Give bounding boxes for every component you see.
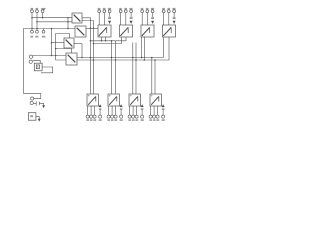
feed-through terminal X2.1 — [31, 30, 34, 33]
feed-through labels — [30, 36, 45, 38]
input terminal X1.1 — [31, 10, 34, 13]
junction — [31, 17, 33, 19]
input terminal row top-left: labels — [31, 8, 45, 10]
wire ch4 drop a — [151, 58, 153, 95]
channel group B4 — [149, 94, 165, 121]
junction — [55, 55, 57, 57]
signal converter U2 — [120, 25, 133, 37]
channel group G1 — [98, 8, 111, 37]
junction — [51, 55, 53, 57]
bus 2 y=60 — [77, 37, 169, 60]
dc/dc converter A — [72, 13, 82, 23]
signal converter U7 — [129, 94, 141, 106]
wire coil loop — [41, 67, 53, 73]
wire contact to converter D — [37, 55, 66, 57]
junction — [31, 28, 33, 30]
wires G3 — [141, 13, 143, 25]
wire ch2 drop a — [111, 41, 113, 94]
wires G4 — [163, 13, 165, 25]
wire ch3 drop a — [132, 43, 134, 95]
terminal labels G3 — [141, 8, 154, 10]
signal converter U8 — [150, 94, 162, 106]
wire ch2 drop b — [115, 41, 117, 94]
wire inner path — [56, 34, 70, 61]
interior mark B3 — [130, 95, 131, 96]
junction — [93, 43, 95, 45]
junction — [81, 57, 83, 59]
junction — [51, 28, 53, 30]
wire ch3 drop b — [135, 43, 137, 95]
wire X1.1 down to feed-through — [31, 13, 33, 30]
disconnect tick on X1.3 — [44, 8, 46, 10]
relay contact K1.1 — [29, 55, 32, 58]
wire feed to G2 second pin — [93, 37, 121, 44]
junction — [67, 21, 69, 23]
terminals G2 — [119, 10, 122, 13]
pin G1 b — [105, 37, 107, 41]
channel group B3 — [128, 94, 144, 121]
junction — [67, 17, 69, 19]
pin G3 b — [143, 37, 145, 60]
junction — [90, 40, 92, 42]
junction — [67, 28, 69, 30]
plug arrow B4 — [162, 104, 165, 107]
pin G3 a — [141, 37, 143, 58]
terminals G1 — [98, 8, 111, 10]
wire converter A out 2 — [82, 21, 93, 95]
plug symbol G1 — [108, 17, 111, 19]
signal converter U1 — [98, 25, 111, 37]
interior mark B4 — [151, 95, 152, 96]
terminals G3 — [141, 10, 144, 13]
channel group G4 — [162, 8, 175, 37]
terminal labels B4 — [149, 119, 164, 121]
wire stub X2.3 — [43, 29, 45, 31]
plug bar 1 — [33, 101, 36, 105]
signal converter U4 — [163, 25, 176, 37]
wire inner bottom to box D top — [56, 49, 72, 54]
junction — [55, 48, 57, 50]
wire riser x=82 — [81, 44, 83, 58]
junction — [132, 57, 134, 59]
bus L- y=21.8 — [37, 21, 72, 23]
junction — [105, 40, 107, 42]
wire ch4 drop b — [154, 60, 156, 94]
plug arrow B2 — [120, 104, 123, 107]
channel group B1 — [86, 94, 102, 121]
terminal wires B3 — [129, 106, 131, 115]
terminal labels B2 — [107, 119, 122, 121]
wire left drop to test sockets — [24, 94, 41, 99]
junction — [93, 28, 95, 30]
junction — [111, 57, 113, 59]
pin G1 a — [101, 37, 103, 41]
dc/dc converter B — [75, 26, 86, 37]
bus supply y=40.8 — [90, 37, 126, 41]
junction — [144, 59, 146, 61]
plug bar 2 — [39, 102, 43, 106]
signal converter U6 — [108, 94, 120, 106]
terminal wires B4 — [150, 106, 152, 115]
terminals B3 — [128, 115, 131, 118]
channel group G3 — [141, 8, 154, 37]
wire X1.2 down to feed-through — [36, 13, 38, 30]
bus 1 y=57.5 — [77, 37, 163, 58]
wire converter C out — [74, 43, 82, 45]
junction — [115, 59, 117, 61]
signal converter U5 — [87, 94, 99, 106]
junction — [135, 59, 137, 61]
terminals B4 — [149, 115, 152, 118]
terminal labels B3 — [128, 119, 143, 121]
signal converter U3 — [141, 25, 154, 37]
junction — [90, 57, 92, 59]
terminal labels G2 — [119, 8, 132, 10]
terminal labels G4 — [162, 8, 175, 10]
wire vertical drop x=68 — [67, 18, 69, 29]
dc/dc converter C — [64, 38, 74, 48]
junction — [93, 59, 95, 61]
junction — [101, 40, 103, 42]
wire contact to coil — [36, 60, 40, 63]
terminal wires B2 — [108, 106, 110, 115]
interior mark B2 — [109, 95, 110, 96]
junction — [51, 42, 53, 44]
wire converter A out pair down right — [82, 18, 90, 94]
wire X1.3 down to bus L+ — [42, 13, 44, 18]
terminal wires B1 — [87, 106, 89, 115]
dc/dc converter D — [66, 53, 77, 65]
junction — [42, 17, 44, 19]
terminals G4 — [162, 10, 165, 13]
junction — [36, 21, 38, 23]
bus L+ y=17.7 — [32, 17, 72, 19]
input terminal X1.3 — [41, 10, 44, 13]
plug arrow B1 — [99, 104, 102, 107]
FE arrow F1 — [38, 119, 41, 122]
contact lever K1.2 — [32, 59, 36, 62]
terminals B1 — [86, 115, 89, 118]
plug arrow B3 — [141, 104, 144, 107]
junction — [154, 59, 156, 61]
bus feed-through y=28.5 with left drop — [24, 29, 75, 94]
junction — [90, 28, 92, 30]
junction — [141, 57, 143, 59]
junction — [36, 28, 38, 30]
relay coil K1 — [34, 63, 42, 71]
feed-through terminal X2.2 — [36, 30, 39, 33]
input terminal X1.2 — [36, 10, 39, 13]
interior mark B1 — [88, 95, 89, 96]
wires G2 — [120, 13, 122, 25]
feed-through terminal X2.3 — [42, 30, 45, 33]
test socket S1 — [31, 97, 34, 100]
wire branch into converter C — [52, 42, 65, 44]
test socket S2 — [30, 101, 33, 104]
junction — [151, 57, 153, 59]
wires G1 — [98, 13, 100, 25]
contact lever K1.1 — [32, 55, 37, 57]
relay contact K1.2 — [29, 60, 32, 63]
junction — [111, 40, 113, 42]
channel group G2 — [119, 8, 132, 37]
wire F1 to FE — [36, 116, 39, 118]
function box F1 — [28, 113, 36, 121]
wire converter B out to channel1 box — [86, 27, 98, 29]
terminals B2 — [107, 115, 110, 118]
terminal labels B1 — [86, 119, 101, 121]
channel group B2 — [107, 94, 123, 121]
FE arrow S2 — [42, 105, 45, 108]
wire outer path down from bus — [51, 29, 53, 56]
